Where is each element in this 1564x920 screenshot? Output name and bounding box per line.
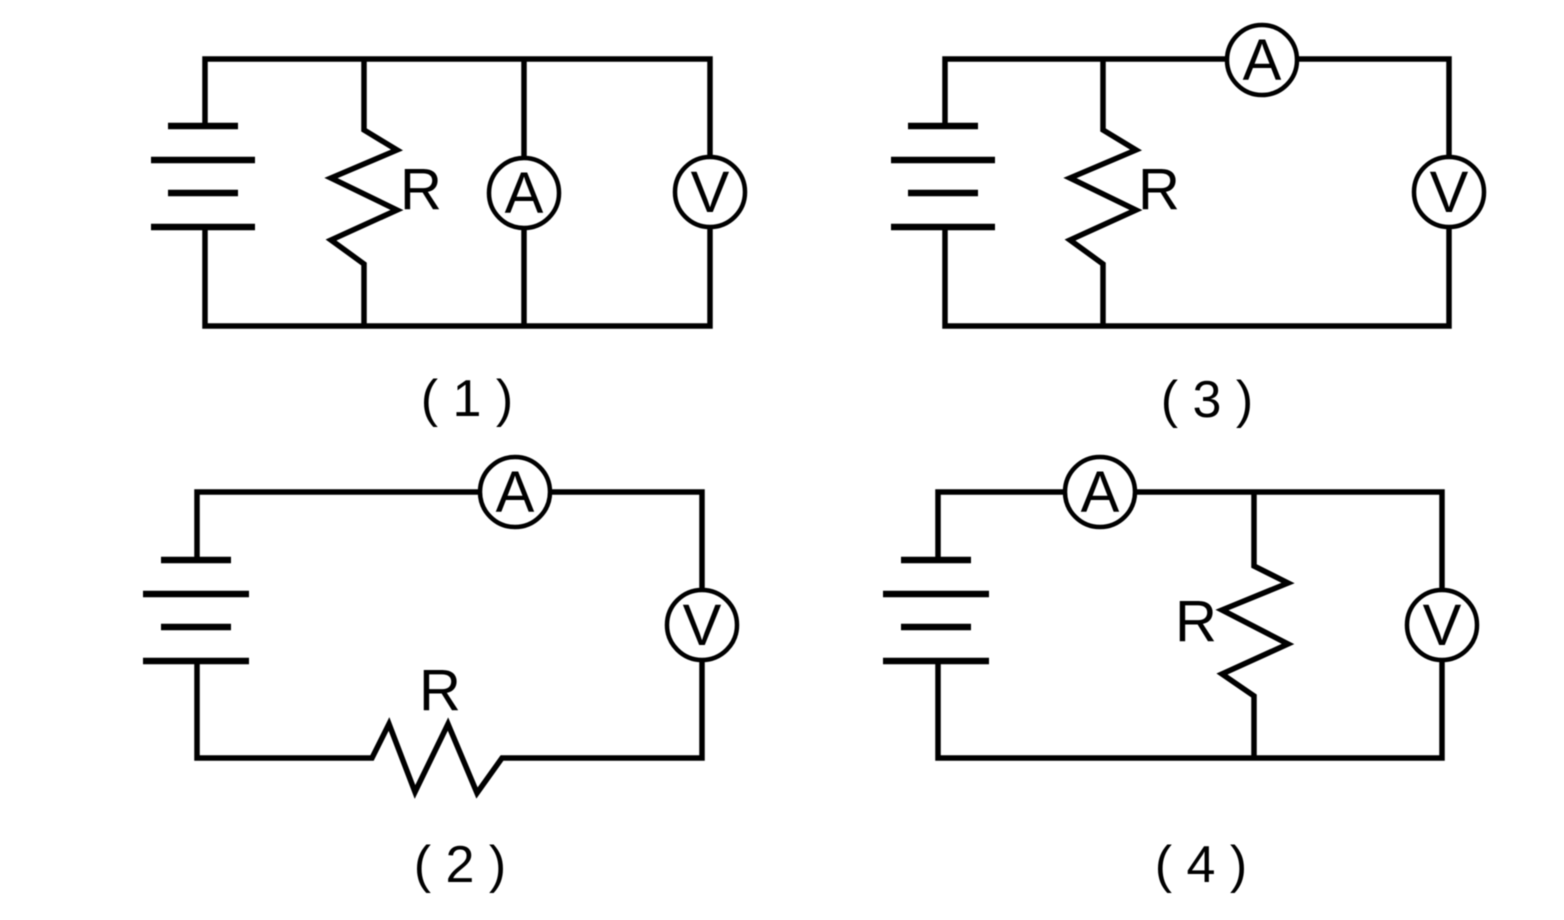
svg-text:R: R [1175, 589, 1217, 654]
svg-text:( 3 ): ( 3 ) [1161, 371, 1253, 429]
svg-text:A: A [1243, 28, 1282, 93]
svg-text:( 4 ): ( 4 ) [1155, 836, 1247, 894]
svg-text:R: R [1138, 157, 1180, 222]
svg-text:A: A [1081, 460, 1120, 525]
svg-text:V: V [1423, 593, 1462, 658]
svg-text:R: R [419, 658, 461, 723]
svg-text:( 1 ): ( 1 ) [421, 370, 513, 428]
svg-text:( 2 ): ( 2 ) [414, 836, 506, 894]
svg-text:R: R [400, 157, 442, 222]
svg-text:V: V [1430, 160, 1469, 225]
svg-text:V: V [683, 593, 722, 658]
svg-text:A: A [505, 161, 544, 226]
svg-text:A: A [496, 460, 535, 525]
svg-text:V: V [691, 160, 730, 225]
